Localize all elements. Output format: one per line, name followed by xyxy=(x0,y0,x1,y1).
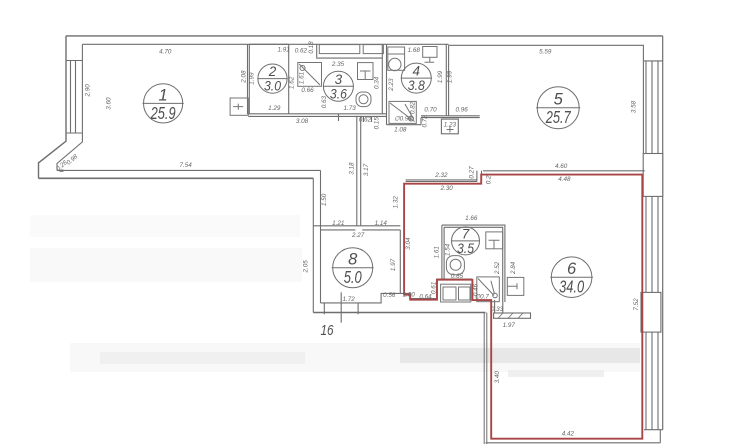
svg-text:2.05: 2.05 xyxy=(302,260,309,274)
svg-text:2.52: 2.52 xyxy=(494,261,501,275)
wall left of room6 lower xyxy=(484,313,487,444)
svg-text:0.63: 0.63 xyxy=(321,95,328,108)
wire step between bottom segments xyxy=(477,171,482,182)
wall room8 bottom outer long xyxy=(313,312,485,314)
wall room8 bottom inner and notch xyxy=(321,293,401,303)
svg-text:4.48: 4.48 xyxy=(558,176,571,183)
wire fixture room4 tick xyxy=(425,57,435,62)
svg-text:3.6: 3.6 xyxy=(330,85,347,101)
window right W1 sill ticks xyxy=(643,60,662,62)
wire outer top wall xyxy=(66,35,663,37)
svg-text:0.62: 0.62 xyxy=(359,116,372,123)
svg-text:1.97: 1.97 xyxy=(503,322,516,329)
svg-text:3.17: 3.17 xyxy=(363,163,370,176)
svg-text:8: 8 xyxy=(348,251,358,269)
wall partition room4-room5 xyxy=(446,44,448,116)
svg-text:0.46: 0.46 xyxy=(472,283,479,296)
wall room7 outer xyxy=(442,225,505,302)
svg-text:0.65: 0.65 xyxy=(451,273,464,280)
svg-text:7.52: 7.52 xyxy=(633,298,640,311)
svg-text:0.82: 0.82 xyxy=(409,101,416,114)
kitchen counter rect B above room3 xyxy=(363,45,383,54)
wall room8 top band xyxy=(313,225,400,227)
svg-text:2.84: 2.84 xyxy=(510,261,517,275)
wire shower room6 diagonal xyxy=(478,279,495,296)
svg-text:1.29: 1.29 xyxy=(268,105,281,112)
wire sink small tick xyxy=(507,283,517,289)
svg-text:0.56: 0.56 xyxy=(383,292,396,299)
node door ticks 0.62 opening xyxy=(364,116,372,122)
room label circle 8 xyxy=(332,248,374,288)
wire inner right wall top room5 xyxy=(642,45,644,61)
fixture room4 top xyxy=(423,47,437,58)
svg-text:2.08: 2.08 xyxy=(241,70,248,84)
node shower room4 drain xyxy=(409,116,414,121)
svg-text:3.18: 3.18 xyxy=(349,162,356,175)
node threshold tick bottom-left xyxy=(60,170,64,172)
svg-text:2.32: 2.32 xyxy=(434,172,448,179)
svg-text:3.08: 3.08 xyxy=(296,118,309,125)
wall under room5 left xyxy=(421,116,480,118)
svg-text:1: 1 xyxy=(159,86,168,104)
shower room3 box xyxy=(298,63,322,87)
wall stub below shower xyxy=(495,300,503,313)
wall room3 top xyxy=(316,57,382,59)
node dim tick below rooms 2-3 wall xyxy=(338,114,340,121)
svg-text:1.61: 1.61 xyxy=(299,72,306,84)
svg-text:0.61: 0.61 xyxy=(431,282,438,294)
svg-text:0.33: 0.33 xyxy=(491,306,504,313)
room label circle 2 xyxy=(257,64,287,94)
svg-text:1.91: 1.91 xyxy=(277,46,289,53)
svg-text:0.15: 0.15 xyxy=(373,117,380,130)
svg-text:1.97: 1.97 xyxy=(390,258,397,271)
red unit-6 boundary highlight xyxy=(404,175,642,439)
wall corridor left pair xyxy=(313,170,320,312)
watermark band lower xyxy=(508,370,604,377)
scan noise patch lower left A xyxy=(30,215,300,237)
room label circle 6 xyxy=(550,257,593,298)
svg-text:1.99: 1.99 xyxy=(437,70,444,83)
radiator box room1 right wall xyxy=(230,98,248,115)
svg-text:3.40: 3.40 xyxy=(494,371,501,384)
svg-text:2.23: 2.23 xyxy=(388,78,395,92)
window right W2 glazing xyxy=(646,196,658,292)
svg-text:0.27: 0.27 xyxy=(468,166,475,179)
wall gray companions of red notch xyxy=(400,279,472,299)
svg-text:0.2: 0.2 xyxy=(486,175,493,184)
svg-text:1.32: 1.32 xyxy=(392,196,399,209)
room label circle 1 xyxy=(143,84,184,123)
svg-text:5.0: 5.0 xyxy=(344,267,362,287)
wall bottom rooms 2-3 xyxy=(248,114,386,117)
wire inner left wall room 1 upper xyxy=(81,44,83,60)
wire vent shaft tick xyxy=(447,127,454,133)
wire inner bottom wall room 1 xyxy=(57,169,321,171)
wire counter divider line room3 top left xyxy=(316,44,318,57)
wire inner top wall rooms 1-4 xyxy=(82,43,448,45)
svg-text:3.5: 3.5 xyxy=(457,240,474,256)
toilet room7 xyxy=(446,256,464,275)
svg-text:2.30: 2.30 xyxy=(439,185,453,192)
watermark band middle xyxy=(400,348,640,363)
room label circle 4 xyxy=(401,63,432,93)
room label circle 5 xyxy=(536,87,580,129)
svg-text:1.99: 1.99 xyxy=(249,72,256,85)
svg-text:1.68: 1.68 xyxy=(408,47,421,54)
wire outer right wall xyxy=(662,36,664,430)
svg-text:2.90: 2.90 xyxy=(85,84,92,98)
svg-text:1.14: 1.14 xyxy=(375,220,388,227)
window right W1 glazing xyxy=(643,61,658,154)
wall partition room2-room3 xyxy=(288,44,290,114)
sink room7 square xyxy=(486,232,503,249)
sink small right of shower room6 xyxy=(507,277,524,295)
shower room4 box xyxy=(389,101,416,123)
node wall end ticks room8 bottom xyxy=(324,303,358,314)
node toilet room7 circle xyxy=(450,259,461,270)
wire outer left wall room 1 xyxy=(39,36,67,178)
node sink room4 circle xyxy=(389,58,401,70)
room label circle 3 xyxy=(323,71,354,101)
svg-text:16: 16 xyxy=(321,322,335,339)
scan noise patch lower left B xyxy=(30,248,302,282)
svg-text:1.54: 1.54 xyxy=(445,243,452,256)
wire shower room4 diagonal xyxy=(390,103,415,122)
svg-text:1.72: 1.72 xyxy=(342,296,355,303)
svg-text:25.7: 25.7 xyxy=(545,107,572,127)
wall room8 top inner with door gap xyxy=(321,229,401,231)
wire inner left wall room 1 lower + diagonal xyxy=(57,133,82,170)
svg-text:6: 6 xyxy=(567,260,577,278)
wire shower room3 diagonal xyxy=(299,64,320,85)
wire outer bottom wall right block xyxy=(486,442,661,444)
svg-text:4.42: 4.42 xyxy=(562,430,575,437)
kitchen counter rect A above room3 xyxy=(319,45,360,54)
wall room4 bottom xyxy=(387,118,422,125)
node shower room3 drain circle xyxy=(300,66,305,71)
svg-text:1.73: 1.73 xyxy=(343,105,356,112)
node toilet room3 circle xyxy=(359,95,368,104)
svg-text:3.04: 3.04 xyxy=(405,237,412,250)
node shower room6 drain xyxy=(493,293,498,298)
svg-text:0.96: 0.96 xyxy=(455,107,468,114)
svg-text:4.70: 4.70 xyxy=(159,49,172,56)
sink counter room4 xyxy=(388,47,405,70)
svg-text:0.72: 0.72 xyxy=(422,115,429,128)
room label circle 7 xyxy=(451,226,480,256)
svg-text:1.23: 1.23 xyxy=(444,122,457,129)
window right W3 glazing xyxy=(646,332,658,430)
wire room2 top step xyxy=(249,43,288,45)
svg-text:3.8: 3.8 xyxy=(408,77,425,93)
wall partition room3-room4 xyxy=(382,44,386,124)
wall room8 right xyxy=(399,230,401,294)
wire inner top wall room 5 xyxy=(449,44,644,46)
svg-text:0.18: 0.18 xyxy=(308,41,315,54)
svg-text:0.70: 0.70 xyxy=(424,107,437,114)
svg-text:5.59: 5.59 xyxy=(539,48,552,55)
toilet room3 xyxy=(356,92,371,107)
wire sink room7 cross xyxy=(489,240,500,249)
window left room 1 glazing lines xyxy=(66,61,82,134)
window right bottom sill tick xyxy=(644,429,663,431)
wire sink room3 cross xyxy=(360,71,371,80)
wall pier2 right side xyxy=(641,292,661,332)
svg-text:1.99: 1.99 xyxy=(446,70,453,83)
svg-text:34.0: 34.0 xyxy=(559,277,584,297)
wall partition room1-room2 xyxy=(248,44,250,114)
wall pier1 right side xyxy=(643,154,663,197)
wall room5 bottom left segment xyxy=(406,180,477,182)
svg-text:1.62: 1.62 xyxy=(289,76,296,89)
wire sink counter divider xyxy=(388,53,405,55)
svg-text:25.9: 25.9 xyxy=(150,103,176,123)
wire radiator tick xyxy=(233,104,243,110)
wall room7 inner xyxy=(444,227,503,302)
svg-text:3.0: 3.0 xyxy=(264,78,281,94)
svg-text:1.50: 1.50 xyxy=(321,193,328,206)
wardrobe unit16 outer xyxy=(441,284,471,302)
watermark band left xyxy=(100,352,305,364)
svg-text:1.66: 1.66 xyxy=(465,215,478,222)
svg-text:1.08: 1.08 xyxy=(394,127,407,134)
wire outer bottom wall left block xyxy=(39,177,314,179)
svg-text:0.66: 0.66 xyxy=(301,87,314,94)
svg-text:2.35: 2.35 xyxy=(331,61,345,68)
svg-text:3.60: 3.60 xyxy=(106,97,113,110)
watermark noise band wide xyxy=(70,343,640,372)
wire dim leader for unit 16 xyxy=(340,292,342,322)
svg-text:7.54: 7.54 xyxy=(179,162,192,169)
wall room5 bottom right segment xyxy=(483,170,645,172)
sink room3 square xyxy=(358,63,374,80)
shower room6 box xyxy=(477,277,500,302)
svg-text:2.27: 2.27 xyxy=(351,232,365,239)
wardrobe unit16 cell right xyxy=(459,287,471,300)
svg-text:0.34: 0.34 xyxy=(374,76,381,89)
wire hatch lines in stub xyxy=(498,313,523,318)
wire vent shaft box room4-5 xyxy=(441,119,458,134)
svg-text:3.58: 3.58 xyxy=(631,100,638,113)
wardrobe unit16 cell left xyxy=(443,287,456,300)
wall hatched stub right of corridor xyxy=(494,313,531,318)
svg-text:1.61: 1.61 xyxy=(433,246,440,258)
svg-text:∅0.94: ∅0.94 xyxy=(394,116,412,123)
wire outer right wall below window xyxy=(659,430,661,443)
svg-text:1.21: 1.21 xyxy=(332,220,344,227)
svg-text:1.30: 1.30 xyxy=(403,291,416,298)
svg-text:5: 5 xyxy=(554,91,564,109)
svg-text:4.60: 4.60 xyxy=(555,163,568,170)
wall corridor right pair xyxy=(357,116,361,226)
svg-text:0.62: 0.62 xyxy=(295,48,308,55)
